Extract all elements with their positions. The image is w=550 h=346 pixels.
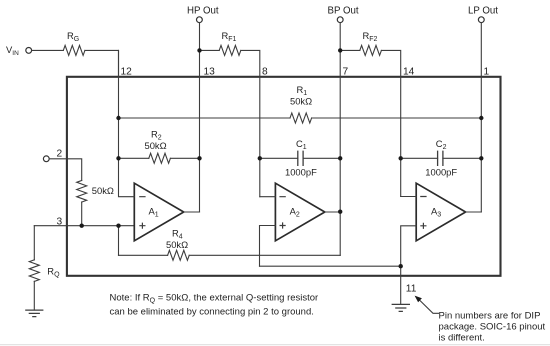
svg-text:is different.: is different. [439, 332, 485, 343]
node R1 left junction [116, 116, 120, 120]
node C2 right junction [479, 156, 483, 160]
wire A3 noninverting to ground bus [401, 226, 417, 266]
note text [110, 293, 319, 318]
wire RF1 left [200, 49, 220, 51]
annotation text [439, 310, 546, 343]
svg-text:VIN: VIN [6, 44, 19, 57]
wire LP Out stem / pin1 line [480, 23, 482, 212]
capacitor C1 [298, 151, 303, 165]
wire A1 inverting input [119, 50, 135, 196]
resistor RQ [29, 260, 39, 282]
ground (RQ) [26, 310, 43, 317]
resistor R4 [168, 250, 190, 260]
node RF2/BP junction [338, 48, 342, 52]
wire HP Out stem / pin13 line [199, 23, 201, 212]
svg-text:11: 11 [406, 284, 417, 295]
node pin11 junction [399, 264, 403, 268]
wire A3 output to pin1 [466, 211, 482, 213]
svg-text:package. SOIC-16 pinout: package. SOIC-16 pinout [439, 321, 546, 332]
resistor RF1 [219, 45, 241, 55]
resistor R2 [149, 153, 171, 163]
wire pin11 down to ground [400, 266, 402, 304]
node LP Out terminal [478, 17, 484, 23]
wire BP Out stem / pin7 line [339, 23, 341, 256]
wire RF1 right to pin8 [241, 50, 260, 196]
svg-text:3: 3 [57, 217, 63, 228]
svg-text:can be eliminated by connectin: can be eliminated by connecting pin 2 to… [110, 306, 314, 317]
node HP Out terminal [197, 17, 203, 23]
wire pin3 horizontal [34, 225, 134, 227]
wire R2 right [170, 157, 199, 159]
svg-text:LP Out: LP Out [468, 5, 498, 16]
svg-text:50kΩ: 50kΩ [145, 140, 167, 151]
node pin3/50k junction [80, 224, 84, 228]
svg-text:BP Out: BP Out [328, 5, 359, 16]
svg-text:C1: C1 [296, 138, 307, 151]
node BP Out terminal [337, 17, 343, 23]
wire A1 plus node down to R4 [118, 226, 120, 256]
svg-text:12: 12 [121, 67, 133, 78]
wire A3 inverting input [401, 196, 417, 198]
node A1+/R4 junction [116, 224, 120, 228]
node C2 left junction [399, 156, 403, 160]
resistor R1 [290, 113, 312, 123]
node R2 right junction [197, 156, 201, 160]
wire A2 output to pin7 [325, 211, 340, 213]
node VIN terminal [26, 48, 32, 54]
op-amp A3 [416, 183, 465, 241]
svg-text:HP Out: HP Out [187, 5, 219, 16]
wire RF2 left [340, 49, 360, 51]
wire VIN to RG [32, 49, 64, 51]
wire RQ to ground [33, 281, 35, 310]
op-amp A1 [134, 183, 183, 241]
wire ground bus [260, 265, 401, 267]
svg-text:50kΩ: 50kΩ [290, 96, 312, 107]
svg-text:1: 1 [484, 67, 490, 78]
wire internal resistor to pin3 node [81, 202, 83, 226]
decorative bottom rule [0, 344, 550, 345]
wire R4 left [119, 254, 168, 256]
wire RQ branch down [33, 226, 35, 260]
svg-text:A1: A1 [149, 205, 159, 218]
svg-text:A2: A2 [290, 205, 300, 218]
node RF1/HP junction [197, 48, 201, 52]
svg-text:1000pF: 1000pF [425, 167, 457, 178]
node A2out/pin7 junction [338, 210, 342, 214]
wire RG to pin12 corner [85, 50, 119, 76]
svg-text:13: 13 [204, 67, 216, 78]
wire A1 output to pin13 [184, 211, 200, 213]
node C1 right junction [338, 156, 342, 160]
svg-text:1000pF: 1000pF [285, 167, 317, 178]
wire C1 left [260, 157, 298, 159]
wire pin2 to internal resistor [49, 159, 81, 181]
svg-text:14: 14 [403, 67, 415, 78]
annotation arrow [418, 299, 438, 313]
wire R1 right segment [312, 117, 482, 119]
ground (pin 11) [392, 304, 409, 311]
svg-text:8: 8 [262, 67, 268, 78]
svg-text:2: 2 [57, 149, 63, 160]
svg-text:50kΩ: 50kΩ [92, 185, 114, 196]
svg-text:RG: RG [67, 30, 79, 43]
svg-text:RF2: RF2 [363, 30, 378, 43]
node R2 left junction [116, 156, 120, 160]
resistor RG [63, 45, 85, 55]
wire R4 right to A2 output node [189, 254, 340, 256]
op-amp A2 [275, 183, 324, 241]
node C1 left junction [258, 156, 262, 160]
wire R1 left segment [119, 117, 291, 119]
svg-text:Note: If RQ = 50kΩ, the extern: Note: If RQ = 50kΩ, the external Q-setti… [110, 293, 319, 305]
svg-text:RQ: RQ [47, 266, 60, 279]
wire A2 inverting input [260, 196, 276, 198]
svg-text:C2: C2 [436, 138, 447, 151]
svg-text:50kΩ: 50kΩ [166, 239, 188, 250]
capacitor C2 [438, 151, 443, 165]
svg-text:7: 7 [343, 67, 349, 78]
node R1 right junction [479, 116, 483, 120]
wire C1 right [303, 157, 340, 159]
svg-text:RF1: RF1 [222, 30, 237, 43]
wire R2 left [119, 157, 149, 159]
wire A2 noninverting to ground bus [260, 226, 276, 267]
wire RF2 right to pin14 [381, 50, 400, 196]
svg-text:A3: A3 [431, 205, 441, 218]
resistor internal 50k [77, 181, 87, 203]
node pin2 terminal [43, 156, 49, 162]
wire C2 right [443, 157, 481, 159]
resistor RF2 [360, 45, 382, 55]
wire C2 left [401, 157, 438, 159]
svg-text:Pin numbers are for DIP: Pin numbers are for DIP [439, 310, 541, 321]
IC box outline [67, 77, 501, 276]
